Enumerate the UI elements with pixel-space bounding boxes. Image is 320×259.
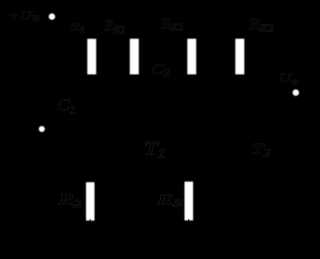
wire bottom rail: [60, 149, 296, 240]
label T1: [144, 138, 166, 161]
resistor R2: [235, 39, 244, 75]
label R1: [69, 20, 86, 35]
resistor R3: [86, 182, 95, 220]
label R2 top: [248, 15, 274, 35]
capacitor C1: [75, 121, 110, 137]
wire notch R3: [89, 219, 91, 221]
wire input lead: [42, 128, 75, 130]
transistor T2: [226, 121, 254, 149]
label T2: [252, 140, 271, 158]
resistor R1: [87, 39, 96, 75]
wire resistor R4 stems: [188, 129, 190, 240]
wire resistor R3 stems: [89, 129, 91, 240]
resistor RK1: [130, 39, 139, 75]
label R3: [58, 191, 82, 210]
terminal +Ub: [49, 13, 55, 19]
wire resistor R1 stem: [91, 17, 93, 129]
wire top supply rail: [52, 16, 296, 18]
wire base T2: [192, 88, 226, 135]
label C2: [152, 60, 171, 79]
wire resistor R2 stem: [239, 17, 241, 121]
wire notch R4: [188, 219, 190, 221]
label C1: [57, 95, 76, 116]
label RK1: [104, 18, 126, 36]
transistor T1: [120, 121, 148, 149]
label RK2: [160, 17, 183, 33]
capacitor C2: [134, 80, 192, 96]
label R4: [156, 190, 181, 209]
wire resistor RK1 stem: [133, 17, 135, 121]
label +Ub: [8, 9, 40, 23]
wire base T1: [92, 128, 120, 130]
terminal output: [293, 89, 299, 95]
resistor R4: [185, 182, 194, 221]
label Ua: [279, 71, 299, 87]
wire resistor RK2 stem: [191, 17, 193, 88]
wire output lead: [240, 92, 296, 94]
resistor RK2: [187, 39, 196, 75]
terminal input: [39, 126, 45, 132]
